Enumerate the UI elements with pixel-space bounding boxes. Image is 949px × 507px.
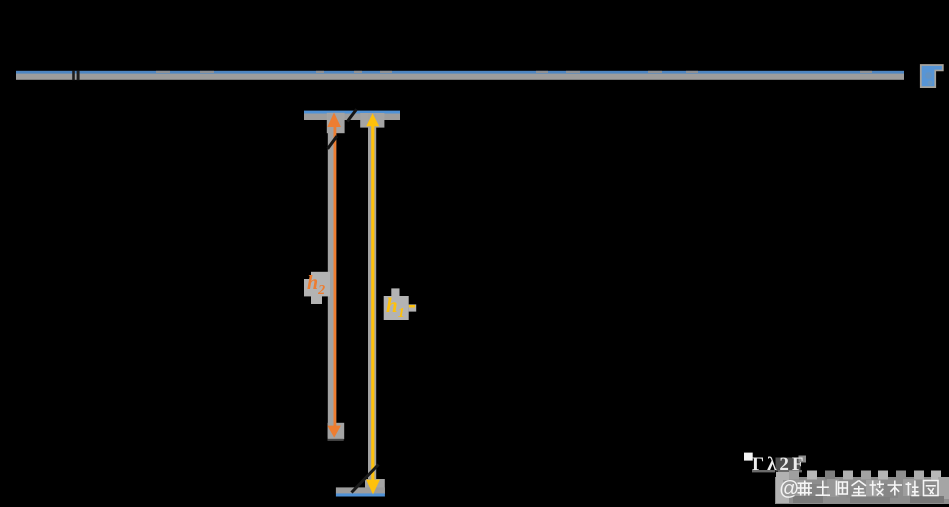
dark waterline under orange arrow [328, 439, 344, 441]
yellow arrow shaft [371, 119, 374, 481]
orange arrow shaft [334, 119, 337, 429]
yellow arrowhead top [366, 113, 379, 126]
black diagonal hatch at upper reference line [347, 109, 356, 121]
label h2 (orange) [307, 272, 325, 298]
gray halo block around orange top arrowhead [327, 113, 345, 133]
gray shadow bar of yellow arrow [368, 114, 376, 483]
watermark @ sign [779, 478, 799, 500]
orange arrowhead bottom [327, 426, 341, 438]
bottom well line (gray with blue bottom edge) [336, 487, 385, 496]
label h1 (yellow) [386, 293, 405, 321]
white caption text [752, 454, 807, 475]
yellow arrowhead bottom [366, 480, 380, 495]
caption gray backing blocks [776, 458, 801, 472]
corner icon (blue flag block at right end of line) [920, 64, 944, 88]
caption underline remnants [752, 470, 775, 472]
orange arrowhead top [327, 113, 341, 128]
gray halo blob of label h1 [384, 288, 417, 320]
gray shadow bar of orange arrow [328, 114, 336, 438]
upper reference line (short horizontal, gray with blue top edge) [304, 111, 400, 120]
watermark background mosaic [775, 471, 949, 505]
gray halo block around orange bottom arrowhead [328, 423, 345, 439]
watermark CJK glyph approximations [798, 481, 939, 496]
ground surface line (long horizontal, gray with blue top edge) [16, 71, 904, 80]
gray halo blob of label h2 [304, 272, 330, 304]
tick glyph on ground line [72, 71, 79, 81]
svg-text:@: @ [779, 478, 799, 500]
gray halo block around yellow bottom arrowhead [365, 479, 385, 494]
label h1 tab dash (yellow) [409, 305, 415, 308]
white square bullet [744, 453, 753, 461]
black diagonal hatch at bottom line [352, 465, 379, 493]
gray halo block around yellow top arrowhead [360, 113, 384, 128]
